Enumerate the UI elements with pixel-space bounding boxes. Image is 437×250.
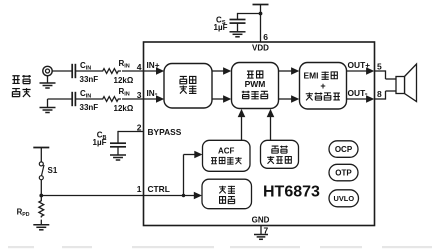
badge OTP bbox=[329, 164, 358, 181]
arrow into shutdown ctrl bbox=[194, 192, 202, 200]
ground (CB) bbox=[110, 154, 126, 156]
svg-text:33nF: 33nF bbox=[80, 103, 99, 112]
wire EMI to OUT- bbox=[347, 98, 368, 100]
block ACF digital control bbox=[203, 140, 251, 171]
arrow carrier gen to PWM bbox=[267, 109, 275, 117]
block digital PWM modulator bbox=[232, 63, 279, 109]
wire RIN2 to IN- bbox=[122, 98, 157, 100]
svg-text:2: 2 bbox=[137, 122, 142, 132]
wire S1 to junction bbox=[40, 180, 42, 200]
ground (jack) bbox=[47, 76, 49, 83]
capacitor CIN1 bbox=[71, 64, 73, 78]
wire to CS bbox=[238, 13, 261, 15]
wire ACF to PWM bbox=[241, 116, 243, 140]
arrow into preamp (IN+) bbox=[156, 67, 164, 75]
block EMI suppression + output driver bbox=[300, 63, 347, 110]
svg-text:1µF: 1µF bbox=[214, 23, 228, 32]
badge OCP bbox=[329, 141, 358, 158]
svg-text:EMI: EMI bbox=[304, 70, 319, 80]
svg-text:8: 8 bbox=[377, 89, 382, 99]
arrow OUT- bbox=[366, 95, 374, 103]
wire preamp to PWM (top) bbox=[212, 70, 224, 72]
wire CTRL bbox=[41, 195, 177, 197]
wire carrier gen to PWM bbox=[270, 116, 272, 140]
svg-text:ACF: ACF bbox=[218, 147, 235, 156]
VDD rail symbol bbox=[253, 4, 269, 6]
badge UVLO bbox=[329, 190, 359, 207]
svg-text:3: 3 bbox=[137, 90, 142, 100]
svg-text:S1: S1 bbox=[48, 166, 58, 175]
ground (CS) bbox=[230, 31, 246, 33]
ground (GND pin) bbox=[254, 234, 268, 236]
wire CIN1 to RIN1 bbox=[75, 70, 101, 72]
wire PWM to EMI (bottom) bbox=[279, 98, 293, 100]
connector J1 audio input jack bbox=[43, 66, 52, 75]
wire gnd to CIN2 bbox=[48, 98, 73, 100]
capacitor CB bbox=[110, 142, 126, 144]
svg-text:OUT+: OUT+ bbox=[348, 60, 371, 70]
node CTRL branch bbox=[182, 194, 185, 197]
svg-text:5: 5 bbox=[377, 61, 382, 71]
svg-text:OCP: OCP bbox=[335, 145, 353, 154]
ground (RPD) bbox=[33, 224, 49, 226]
arrow into ACF bbox=[194, 151, 202, 159]
svg-text:1: 1 bbox=[137, 184, 142, 194]
svg-text:CTRL: CTRL bbox=[148, 184, 170, 194]
wire VDD to pin 6 bbox=[260, 5, 262, 43]
svg-text:GND: GND bbox=[252, 215, 270, 224]
wire EMI to OUT+ bbox=[347, 70, 368, 72]
svg-text:4: 4 bbox=[137, 62, 142, 72]
ground (IN- input) bbox=[47, 99, 49, 108]
wire PWM to EMI (top) bbox=[279, 70, 293, 72]
wire preamp to PWM (bottom) bbox=[212, 98, 224, 100]
label dan-duan shu-ru (single-ended input) bbox=[12, 76, 19, 84]
svg-text:12kΩ: 12kΩ bbox=[114, 76, 134, 85]
svg-text:1µF: 1µF bbox=[93, 138, 107, 147]
arrow OUT+ bbox=[366, 67, 374, 75]
block carrier generator (zai-bo fa-sheng-qi) bbox=[261, 140, 299, 168]
svg-text:6: 6 bbox=[263, 32, 268, 42]
svg-text:12kΩ: 12kΩ bbox=[114, 104, 134, 113]
faint cropped caption (bottom) bbox=[8, 246, 432, 248]
wire BYPASS pin 2 bbox=[118, 131, 144, 133]
wire GND pin 7 bbox=[260, 226, 262, 235]
wire branch up to ACF bbox=[183, 155, 185, 196]
resistor RIN1 bbox=[101, 69, 121, 74]
svg-text:33nF: 33nF bbox=[80, 75, 99, 84]
wire rail to S1 bbox=[40, 148, 42, 162]
svg-text:VDD: VDD bbox=[252, 43, 269, 52]
svg-text:OTP: OTP bbox=[335, 168, 352, 177]
svg-text:+: + bbox=[320, 81, 325, 91]
resistor RPD bbox=[39, 200, 44, 218]
switch S1 bbox=[39, 162, 43, 166]
svg-text:PWM: PWM bbox=[245, 79, 266, 89]
node CTRL junction bbox=[39, 194, 43, 198]
svg-text:BYPASS: BYPASS bbox=[148, 127, 182, 137]
wire jack to CIN1 bbox=[52, 70, 72, 72]
capacitor CIN2 bbox=[71, 92, 73, 106]
resistor RIN2 bbox=[101, 97, 121, 102]
svg-text:HT6873: HT6873 bbox=[263, 184, 320, 201]
arrow into preamp (IN-) bbox=[156, 95, 164, 103]
svg-text:OUT-: OUT- bbox=[348, 88, 368, 98]
wire OUT- to speaker bbox=[375, 98, 386, 100]
VDD rail symbol (S1) bbox=[33, 147, 49, 149]
block preamp (qian-zhi fang-da) bbox=[164, 64, 212, 109]
wire CIN2 to RIN2 bbox=[75, 98, 101, 100]
wire OUT+ to speaker bbox=[375, 70, 386, 72]
node VDD junction bbox=[259, 12, 263, 16]
speaker LS1 bbox=[405, 64, 417, 102]
capacitor CS bbox=[230, 19, 246, 21]
chip U1 HT6873 outline bbox=[144, 42, 375, 226]
svg-text:UVLO: UVLO bbox=[334, 194, 355, 203]
arrow ACF to PWM bbox=[238, 109, 246, 117]
block shutdown control (guan-duan kong-zhi) bbox=[202, 179, 252, 209]
wire RIN1 to IN+ bbox=[122, 70, 157, 72]
